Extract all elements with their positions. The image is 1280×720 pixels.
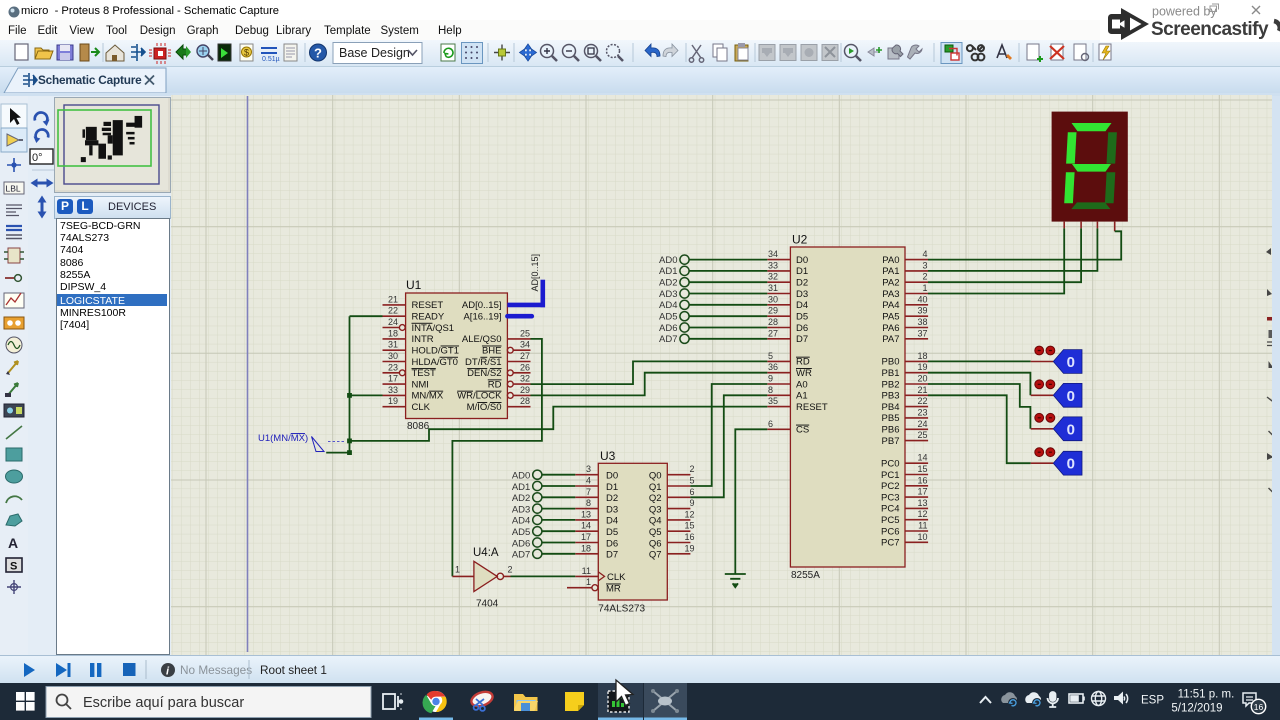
7-seg segment d (unlit) [1071, 202, 1110, 209]
svg-text:WR: WR [796, 368, 812, 379]
wire U2 PB3 to logic state 4 [928, 395, 1031, 463]
svg-text:24: 24 [388, 317, 398, 327]
op-amp U3 (74ALS273 latch) body [598, 449, 667, 615]
svg-text:Q2: Q2 [649, 493, 662, 504]
svg-text:AD3: AD3 [659, 289, 677, 300]
svg-text:17: 17 [581, 532, 591, 542]
svg-text:D0: D0 [796, 255, 808, 266]
svg-text:U4:A: U4:A [473, 547, 499, 559]
svg-text:NMI: NMI [412, 379, 429, 390]
U3 left pin names [606, 471, 626, 595]
partial components at right sheet edge [1266, 248, 1274, 493]
svg-text:PC7: PC7 [881, 538, 899, 549]
svg-text:AD7: AD7 [659, 334, 677, 345]
svg-text:29: 29 [520, 385, 530, 395]
U1 right pin names [457, 300, 502, 413]
svg-text:29: 29 [768, 306, 778, 316]
svg-text:3: 3 [922, 260, 927, 270]
file explorer icon [514, 694, 538, 711]
wire U2 PA1 to display [928, 228, 1097, 271]
svg-text:BHE: BHE [482, 346, 502, 357]
svg-text:AD5: AD5 [659, 312, 677, 323]
7-seg segment c (unlit) [1105, 172, 1115, 203]
svg-text:AD7: AD7 [512, 550, 530, 561]
svg-text:23: 23 [388, 362, 398, 372]
right margin strip [1272, 96, 1280, 655]
svg-text:12: 12 [684, 509, 694, 519]
svg-text:36: 36 [768, 362, 778, 372]
snipping tool icon [469, 689, 494, 709]
U2 left pin names [796, 255, 828, 436]
svg-text:PC5: PC5 [881, 515, 899, 526]
start button [16, 692, 35, 711]
node label pointer triangle [312, 437, 325, 452]
svg-text:AD3: AD3 [512, 504, 530, 515]
svg-text:18: 18 [388, 328, 398, 338]
Base Design combo [333, 43, 422, 64]
U3 right pin numbers [684, 464, 694, 553]
svg-text:PA0: PA0 [882, 255, 899, 266]
svg-text:10: 10 [917, 532, 927, 542]
svg-text:AD1: AD1 [659, 266, 677, 277]
svg-text:INTR: INTR [412, 334, 434, 345]
svg-text:A[16..19]: A[16..19] [463, 312, 501, 323]
svg-text:22: 22 [388, 306, 398, 316]
svg-text:16: 16 [917, 475, 927, 485]
svg-text:Q0: Q0 [649, 471, 662, 482]
wire CS to ground [735, 429, 767, 574]
svg-text:D5: D5 [606, 527, 618, 538]
U2 right pin names [881, 255, 899, 549]
bus A[16..19] [507, 314, 531, 319]
svg-text:S: S [10, 561, 17, 573]
battery [1069, 694, 1084, 703]
svg-text:AD4: AD4 [659, 300, 677, 311]
svg-text:26: 26 [520, 362, 530, 372]
title bar [0, 0, 1280, 20]
svg-text:D3: D3 [606, 504, 618, 515]
svg-text:U3: U3 [600, 449, 616, 463]
svg-text:2: 2 [508, 565, 513, 575]
svg-text:30: 30 [768, 294, 778, 304]
svg-text:8: 8 [586, 498, 591, 508]
svg-text:5/12/2019: 5/12/2019 [1171, 703, 1222, 715]
svg-text:AD1: AD1 [512, 482, 530, 493]
wire WR: U1 to U2 [531, 373, 768, 396]
svg-text:PA1: PA1 [882, 266, 899, 277]
logic state 3 [1031, 413, 1082, 440]
screencastify watermark [1100, 0, 1280, 42]
svg-text:34: 34 [768, 249, 778, 259]
wire U2 PB2 to logic state 3 [928, 384, 1030, 429]
wire U2 PA2 to display [928, 228, 1081, 282]
svg-text:TEST: TEST [412, 368, 436, 379]
logic state 2 [1031, 380, 1082, 407]
U2 right pin numbers [917, 249, 927, 542]
svg-text:40: 40 [917, 294, 927, 304]
op-amp U2 (8255A PPI) body [790, 233, 905, 582]
wire U4 output to U3 CLK [511, 575, 576, 577]
svg-text:4: 4 [586, 476, 591, 486]
svg-text:24: 24 [917, 419, 927, 429]
svg-text:PA4: PA4 [882, 300, 899, 311]
svg-text:PA7: PA7 [882, 334, 899, 345]
U3 left pin numbers [581, 464, 591, 587]
sheet border [247, 96, 249, 652]
wire U2 RESET to MN/MX net [350, 407, 768, 441]
svg-text:U2: U2 [792, 233, 808, 247]
svg-text:AD5: AD5 [512, 527, 530, 538]
logic state 4 [1031, 448, 1082, 475]
search box [46, 687, 371, 718]
svg-text:Q3: Q3 [649, 504, 662, 515]
svg-text:5: 5 [689, 476, 694, 486]
svg-text:READY: READY [412, 312, 445, 323]
bus AD[0..15] [507, 280, 545, 308]
svg-text:8255A: 8255A [791, 570, 820, 581]
svg-text:ALE/QS0: ALE/QS0 [462, 334, 502, 345]
svg-text:AD0: AD0 [512, 471, 530, 482]
svg-text:AD6: AD6 [659, 323, 677, 334]
svg-text:RD: RD [488, 379, 502, 390]
svg-text:19: 19 [917, 362, 927, 372]
speaker [1114, 692, 1123, 705]
svg-text:34: 34 [520, 340, 530, 350]
svg-text:U1(MN/MX): U1(MN/MX) [258, 433, 308, 444]
svg-text:MR: MR [606, 584, 621, 595]
main toolbar icons [0, 40, 1280, 66]
U3 right pin stubs [667, 475, 690, 554]
node AD0..AD7 terminals at U2 [680, 255, 689, 343]
P L buttons + DEVICES header [54, 196, 171, 219]
U1 left pin names [412, 300, 460, 413]
left panel background [0, 96, 171, 655]
svg-text:27: 27 [768, 328, 778, 338]
U1 right pin bubbles [507, 347, 513, 398]
devices list [56, 218, 170, 655]
7-segment display body [1052, 112, 1128, 222]
svg-text:M/IO/S0: M/IO/S0 [467, 402, 502, 413]
svg-text:PC6: PC6 [881, 526, 899, 537]
svg-text:33: 33 [388, 385, 398, 395]
svg-text:ESP: ESP [1141, 695, 1164, 707]
sticky notes icon [565, 692, 584, 711]
svg-text:11: 11 [582, 566, 591, 576]
svg-text:Base Design: Base Design [339, 46, 410, 60]
svg-text:8086: 8086 [407, 421, 430, 432]
svg-text:PB5: PB5 [882, 413, 900, 424]
svg-text:WR/LOCK: WR/LOCK [457, 391, 502, 402]
svg-text:PB4: PB4 [882, 402, 900, 413]
svg-text:A: A [8, 535, 18, 551]
chrome icon [422, 691, 446, 713]
svg-text:30: 30 [388, 351, 398, 361]
svg-text:18: 18 [917, 351, 927, 361]
svg-text:31: 31 [388, 340, 398, 350]
svg-text:INTA/QS1: INTA/QS1 [412, 323, 455, 334]
svg-text:Q1: Q1 [649, 482, 662, 493]
svg-text:18: 18 [581, 543, 591, 553]
svg-text:D1: D1 [796, 266, 808, 277]
svg-text:9: 9 [689, 498, 694, 508]
svg-text:25: 25 [520, 328, 530, 338]
U3 left pin stubs [567, 475, 598, 588]
svg-text:28: 28 [520, 396, 530, 406]
menu bar [0, 20, 1280, 40]
svg-text:9: 9 [768, 374, 773, 384]
wire U2 PA0 to display [928, 231, 1121, 259]
svg-text:U1: U1 [406, 278, 422, 292]
svg-text:3: 3 [586, 464, 591, 474]
preview mini-map [54, 97, 171, 193]
svg-text:HOLD/GT1: HOLD/GT1 [412, 346, 460, 357]
svg-text:17: 17 [917, 487, 927, 497]
svg-text:AD2: AD2 [659, 278, 677, 289]
svg-text:PB2: PB2 [882, 379, 900, 390]
svg-text:2: 2 [689, 464, 694, 474]
svg-text:6: 6 [768, 419, 773, 429]
junction dots on MN/MX net [347, 393, 352, 455]
svg-text:15: 15 [684, 521, 694, 531]
svg-text:Q7: Q7 [649, 550, 662, 561]
svg-text:D3: D3 [796, 289, 808, 300]
svg-text:AD[0..15]: AD[0..15] [462, 300, 502, 311]
svg-text:33: 33 [768, 260, 778, 270]
U2 left pin stubs [767, 260, 790, 430]
network globe [1092, 692, 1106, 706]
logic state 1 [1031, 346, 1082, 373]
svg-text:AD6: AD6 [512, 538, 530, 549]
svg-text:7: 7 [586, 487, 591, 497]
svg-text:PB0: PB0 [882, 357, 900, 368]
svg-text:13: 13 [581, 509, 591, 519]
task view icon [383, 694, 402, 709]
svg-text:1: 1 [586, 577, 591, 587]
svg-text:CS: CS [796, 425, 809, 436]
svg-text:RESET: RESET [412, 300, 444, 311]
svg-text:21: 21 [388, 294, 398, 304]
svg-text:74ALS273: 74ALS273 [598, 604, 645, 615]
svg-text:0.51µ: 0.51µ [262, 56, 280, 63]
tray chevron [980, 697, 991, 703]
svg-text:D0: D0 [606, 471, 618, 482]
svg-text:?: ? [314, 46, 322, 61]
svg-text:RESET: RESET [796, 402, 828, 413]
7-seg display pins [1064, 222, 1115, 232]
U1 right pin numbers [520, 328, 530, 406]
svg-text:27: 27 [520, 351, 530, 361]
svg-text:16: 16 [684, 532, 694, 542]
svg-text:6: 6 [689, 487, 694, 497]
svg-text:19: 19 [684, 543, 694, 553]
svg-text:PA2: PA2 [882, 278, 899, 289]
svg-text:DT/R/S1: DT/R/S1 [465, 357, 501, 368]
svg-text:Q4: Q4 [649, 516, 662, 527]
main toolbar background [0, 40, 1280, 67]
svg-text:17: 17 [388, 374, 398, 384]
svg-text:32: 32 [520, 374, 530, 384]
svg-text:PB6: PB6 [882, 425, 900, 436]
svg-text:19: 19 [388, 396, 398, 406]
wire RD: U1 to U2 [531, 361, 768, 384]
U1 left pin stubs [383, 305, 406, 407]
node AD0..AD7 terminals at U3 [533, 470, 542, 558]
svg-text:DEN/S2: DEN/S2 [467, 368, 501, 379]
svg-text:38: 38 [917, 317, 927, 327]
tab bar [0, 67, 1280, 93]
svg-text:$: $ [244, 48, 249, 58]
svg-text:AD4: AD4 [512, 516, 530, 527]
svg-text:7404: 7404 [476, 599, 499, 610]
windows taskbar [0, 683, 1280, 720]
svg-text:AD2: AD2 [512, 493, 530, 504]
7-seg segment b (unlit) [1107, 132, 1117, 163]
svg-text:20: 20 [917, 374, 927, 384]
svg-text:0: 0 [1067, 354, 1075, 371]
U1 left pin bubbles [399, 325, 405, 376]
svg-text:0°: 0° [32, 152, 43, 164]
svg-text:Screencastify: Screencastify [1151, 19, 1269, 40]
svg-text:PC1: PC1 [881, 470, 899, 481]
svg-text:22: 22 [917, 396, 927, 406]
onedrive clouds [1001, 692, 1017, 703]
svg-text:12: 12 [917, 509, 927, 519]
U2 right pin stubs [905, 260, 928, 543]
svg-text:31: 31 [768, 283, 778, 293]
rotation controls [28, 99, 56, 229]
wire READY/MN-MX vertical [326, 316, 382, 452]
svg-text:PB1: PB1 [882, 368, 900, 379]
svg-text:D2: D2 [606, 493, 618, 504]
wire AD bus taps to U2 D0..D7 [689, 260, 767, 339]
svg-text:Q5: Q5 [649, 527, 662, 538]
svg-text:1: 1 [922, 283, 927, 293]
7-seg segment a (lit) [1072, 123, 1112, 131]
svg-text:Root sheet 1: Root sheet 1 [260, 663, 327, 677]
svg-text:RD: RD [796, 357, 810, 368]
simulation control bar [0, 655, 1280, 684]
svg-text:CLK: CLK [607, 572, 626, 583]
svg-text:21: 21 [917, 385, 927, 395]
svg-text:D7: D7 [606, 550, 618, 561]
svg-text:23: 23 [917, 407, 927, 417]
left tool icon column [0, 96, 30, 655]
svg-text:PC3: PC3 [881, 492, 899, 503]
wire AD bus taps to U3 D0..D7 [542, 475, 575, 554]
svg-text:Escribe aquí para buscar: Escribe aquí para buscar [83, 695, 244, 711]
7-seg segment e (lit) [1064, 172, 1074, 203]
transistor U4:A (7404 inverter) [452, 547, 512, 610]
U1 right pin stubs [507, 339, 530, 407]
svg-text:0: 0 [1067, 421, 1075, 438]
svg-text:D1: D1 [606, 482, 618, 493]
svg-text:PC0: PC0 [881, 459, 899, 470]
svg-text:Q6: Q6 [649, 538, 662, 549]
svg-text:25: 25 [917, 430, 927, 440]
svg-text:D5: D5 [796, 312, 808, 323]
svg-text:PA5: PA5 [882, 312, 899, 323]
svg-text:37: 37 [917, 328, 927, 338]
running app underline indicators [419, 718, 453, 720]
svg-text:28: 28 [768, 317, 778, 327]
ground [725, 574, 746, 587]
svg-text:PB3: PB3 [882, 391, 900, 402]
U2 left pin numbers [768, 249, 778, 429]
op-amp U1 (8086 CPU) body [406, 278, 508, 432]
node AD0..AD7 labels at U2 [659, 255, 677, 345]
svg-text:LBL: LBL [6, 184, 21, 194]
U3 MR pin bubble [592, 585, 598, 591]
svg-text:0: 0 [1067, 388, 1075, 405]
svg-text:13: 13 [917, 498, 927, 508]
wire U3 Q1 to U2 A0 [690, 384, 767, 486]
7-seg segment g (lit) [1072, 164, 1111, 172]
wire ALE/QS0 to U4 input [452, 339, 542, 577]
mic [1048, 692, 1059, 707]
svg-text:HLDA/GT0: HLDA/GT0 [412, 357, 458, 368]
svg-text:powered by: powered by [1152, 5, 1217, 19]
svg-text:D2: D2 [796, 278, 808, 289]
svg-text:CLK: CLK [412, 402, 431, 413]
wire U2 PB1 to logic state 2 [928, 373, 1030, 396]
svg-text:8: 8 [768, 385, 773, 395]
svg-text:11: 11 [918, 521, 927, 531]
svg-text:No Messages: No Messages [180, 663, 252, 677]
svg-text:A1: A1 [796, 391, 808, 402]
svg-text:39: 39 [917, 306, 927, 316]
U3 right pin names [649, 471, 662, 561]
svg-text:16: 16 [1254, 702, 1264, 712]
svg-text:PA3: PA3 [882, 289, 899, 300]
svg-text:35: 35 [768, 396, 778, 406]
svg-text:PA6: PA6 [882, 323, 899, 334]
svg-text:1: 1 [455, 565, 460, 575]
wire U3 Q2 to U2 A1 [690, 395, 767, 497]
svg-text:2: 2 [922, 272, 927, 282]
svg-text:Schematic Capture: Schematic Capture [38, 73, 142, 87]
svg-text:15: 15 [917, 464, 927, 474]
svg-text:32: 32 [768, 272, 778, 282]
svg-text:D4: D4 [606, 516, 618, 527]
svg-text:PC4: PC4 [881, 504, 899, 515]
proteus active app tile [598, 683, 643, 720]
notifications [1243, 693, 1256, 706]
mouse cursor [610, 678, 640, 712]
svg-text:0: 0 [1067, 456, 1075, 473]
proteus 8 app tile [644, 683, 687, 720]
svg-text:D6: D6 [796, 323, 808, 334]
svg-text:A0: A0 [796, 379, 808, 390]
svg-text:D6: D6 [606, 538, 618, 549]
wire U2 PA3 to display [928, 228, 1064, 293]
svg-text:5: 5 [768, 351, 773, 361]
svg-text:4: 4 [922, 249, 927, 259]
svg-text:D7: D7 [796, 334, 808, 345]
node AD0..AD7 labels at U3 [512, 471, 530, 561]
svg-text:D4: D4 [796, 300, 808, 311]
svg-text:AD[0..15]: AD[0..15] [530, 254, 540, 292]
U1 left pin numbers [388, 294, 398, 406]
7-seg segment f (lit) [1066, 132, 1076, 163]
svg-text:PC2: PC2 [881, 481, 899, 492]
svg-text:14: 14 [917, 453, 927, 463]
schematic canvas [171, 95, 1272, 655]
svg-text:PB7: PB7 [882, 436, 900, 447]
svg-text:AD0: AD0 [659, 255, 677, 266]
wire U2 PB0 to logic state 1 [928, 360, 1031, 362]
svg-text:MN/MX: MN/MX [412, 391, 444, 402]
svg-text:14: 14 [581, 521, 591, 531]
